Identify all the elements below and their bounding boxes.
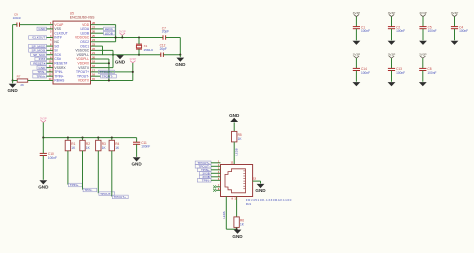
svg-text:100nF: 100nF [459, 29, 468, 33]
junction [179, 54, 181, 56]
svg-text:3V3P: 3V3P [353, 52, 361, 56]
svg-text:100nF: 100nF [427, 71, 436, 75]
net label TPOUT- [195, 164, 211, 168]
capacitor C14 [353, 67, 370, 75]
net label LEDB [104, 31, 116, 35]
junction [138, 54, 140, 56]
wire rail to C11 [136, 138, 138, 143]
ground C4 [451, 41, 459, 45]
wire rail to R1 [67, 138, 69, 141]
wire VSSTX [91, 67, 114, 69]
capacitor C10 [40, 152, 57, 160]
wire gnd stem left [12, 81, 14, 84]
capacitor C4 [451, 25, 468, 33]
wire VDDOSC row [91, 37, 164, 39]
wire C13 top [391, 58, 393, 68]
wire R1 down [67, 151, 69, 185]
no-connect pin 7 [213, 185, 216, 188]
svg-text:20pF: 20pF [160, 47, 167, 51]
wire crystal bottom [138, 49, 140, 55]
svg-text:GND: GND [232, 234, 243, 239]
svg-text:20pF: 20pF [162, 30, 169, 34]
wire rj45 nc pin7 [216, 186, 221, 188]
net label 3V3B [199, 175, 211, 179]
resistor R1 [65, 140, 76, 151]
wire osc gnd stem [179, 55, 181, 58]
wire OSC1 drop [102, 46, 104, 55]
net label LEDA [104, 27, 116, 31]
ground R5 top [229, 113, 240, 122]
junction [132, 71, 134, 73]
wire gnd join [226, 228, 237, 230]
svg-text:R7: R7 [17, 75, 21, 79]
power 3V3P C2 [388, 11, 396, 17]
wire rail to C10 [42, 138, 44, 154]
svg-text:/CLKOUT: /CLKOUT [32, 36, 46, 40]
wire C5 top [422, 17, 424, 27]
resistor R5 [232, 131, 243, 142]
svg-text:LEDA: LEDA [222, 211, 226, 218]
resistor R6 [234, 217, 245, 228]
svg-text:3V3P: 3V3P [388, 52, 396, 56]
wire R3 down [97, 151, 99, 193]
capacitor C11 [133, 141, 150, 149]
wire C8 bottom [422, 71, 424, 82]
wire GND [47, 28, 54, 30]
wire C14 bottom [355, 71, 357, 82]
resistor R4 [109, 140, 120, 151]
power 3V3P C14 [353, 52, 361, 58]
ground left [7, 84, 18, 93]
net label TPIN+ [69, 183, 83, 187]
svg-text:25MHz: 25MHz [144, 48, 154, 52]
wire gnd to R5 [233, 122, 235, 131]
wire shield [253, 180, 261, 182]
svg-text:100nF: 100nF [428, 29, 437, 33]
wire rj45 3V3B [211, 172, 221, 174]
no-connect pin 8 [213, 189, 216, 192]
capacitor C1 [353, 25, 370, 33]
wire to R6 [236, 197, 238, 217]
wire LEDB [91, 32, 104, 34]
ground C5 [419, 41, 427, 45]
wire VSS vertical [112, 50, 114, 67]
net label SP_MISO [29, 44, 47, 48]
wire VSSOSC [91, 49, 114, 51]
svg-text:RJ1: RJ1 [246, 202, 252, 206]
wire C4 top [454, 17, 456, 27]
wire VDDPLL [91, 58, 109, 60]
junction [108, 79, 110, 81]
svg-text:GND: GND [131, 162, 142, 167]
wire rail to R4 [111, 138, 113, 141]
junction [115, 36, 117, 38]
junction [108, 62, 110, 64]
svg-text:3V3P: 3V3P [419, 11, 427, 15]
junction [121, 36, 123, 38]
svg-text:VDDTX: VDDTX [78, 79, 90, 83]
wire VSSPLL row [91, 54, 161, 56]
ground bottom [232, 230, 243, 239]
junction [67, 137, 69, 139]
svg-text:LEDB: LEDB [235, 148, 239, 155]
svg-text:GND: GND [7, 88, 18, 93]
wire OSC2 [91, 41, 116, 43]
wire rj45 3V3B [211, 176, 221, 178]
wire VDD [91, 24, 116, 26]
ground C14 [353, 82, 361, 86]
net label TPIN+ [197, 168, 211, 172]
svg-text:ENC28J60-I/SS: ENC28J60-I/SS [70, 15, 95, 19]
wire SP_SCK [47, 54, 54, 56]
wire VDDRX [91, 62, 109, 64]
capacitor C9 [13, 12, 22, 26]
junction [42, 137, 44, 139]
wire C4 bottom [454, 29, 456, 41]
wire /CLKOUT [47, 37, 54, 39]
wire C13 bottom [391, 71, 393, 82]
capacitor C5 [419, 25, 436, 33]
crystal X1 25MHz [136, 44, 154, 52]
svg-text:TPIN+: TPIN+ [70, 183, 79, 187]
ground vss [115, 55, 126, 64]
wire VCAP to C9 [20, 24, 54, 26]
wire TPOUT- [91, 75, 101, 77]
wire power stem 3 [42, 122, 44, 137]
wire R5 to RJ45 [233, 142, 235, 165]
power 3V3P osc [119, 30, 126, 36]
svg-text:100nF: 100nF [361, 71, 370, 75]
wire TPOUT+ [91, 71, 133, 73]
ground C11 [131, 157, 142, 166]
ground C1 [353, 41, 361, 45]
ground C2 [388, 41, 396, 45]
svg-text:100nF: 100nF [396, 29, 405, 33]
wire rj45 TPOUT+ [211, 162, 221, 164]
wire VDDTX [91, 80, 133, 82]
junction [111, 137, 113, 139]
wire C8 top [422, 58, 424, 68]
capacitor C8 [419, 67, 436, 75]
svg-text:GND: GND [38, 27, 46, 31]
wire osc gnd rail [179, 38, 181, 55]
svg-text:2K: 2K [20, 83, 24, 87]
wire power stem 2 [132, 63, 134, 81]
svg-text:3V3P: 3V3P [419, 52, 427, 56]
power 3V3P C8 [419, 52, 427, 58]
wire C2 top [391, 17, 393, 27]
wire C1 top [355, 17, 357, 27]
wire LEDA [91, 28, 104, 30]
junction [12, 79, 14, 81]
net label RESET# [31, 61, 47, 65]
wire SP_MISO [47, 45, 54, 47]
wire shield stem [260, 181, 262, 183]
svg-text:GND: GND [255, 188, 266, 193]
net label TPOUT+ [99, 70, 115, 74]
resistor R7 [17, 75, 28, 88]
wire OSC1 [91, 45, 103, 47]
wire rj45 nc pin8 [216, 189, 221, 191]
wire C5 bottom [422, 29, 424, 41]
ground C13 [388, 82, 396, 86]
connector RJ1 RJ45 [221, 165, 292, 207]
wire C10 to gnd [42, 156, 44, 180]
power 3V3P C4 [451, 11, 459, 17]
wire C11 to gnd [136, 144, 138, 157]
net label TPIN- [197, 178, 211, 182]
net label GND [37, 66, 47, 70]
svg-text:TPIN-: TPIN- [202, 178, 210, 182]
svg-text:LEDB: LEDB [105, 31, 113, 35]
wire rail to R2 [82, 138, 84, 141]
wire VDD vertical [108, 59, 110, 81]
svg-text:100nF: 100nF [48, 156, 57, 160]
svg-text:RBIAS: RBIAS [54, 79, 65, 83]
power 3V3P C1 [353, 11, 361, 17]
svg-text:TPOUT+: TPOUT+ [114, 195, 126, 199]
wire RESET# [47, 62, 54, 64]
wire C1 bottom [355, 29, 357, 41]
svg-text:GND: GND [229, 113, 240, 118]
net label TPOUT+ [195, 161, 211, 165]
svg-text:100nF: 100nF [361, 29, 370, 33]
wire R2 down [82, 151, 84, 190]
wire TPIN+ [47, 75, 54, 77]
capacitor C2 [388, 25, 405, 33]
capacitor C7 [162, 26, 169, 39]
svg-text:100nF: 100nF [396, 71, 405, 75]
wire power stem [121, 35, 123, 37]
wire rj45 TPIN+ [211, 169, 221, 171]
resistor R3 [96, 140, 107, 151]
wire rail to R7 [13, 80, 18, 82]
wire INT# [47, 58, 54, 60]
net label INT# [35, 57, 47, 61]
svg-text:TPOUT-: TPOUT- [102, 74, 113, 78]
wire R7 to RBIAS [28, 80, 53, 82]
power 3V3P term [40, 117, 47, 123]
net label SP_MOSI [29, 49, 47, 53]
resistor R2 [80, 140, 91, 151]
ground osc [175, 58, 186, 67]
svg-text:3V3P: 3V3P [451, 11, 459, 15]
svg-text:100nF: 100nF [141, 145, 150, 149]
svg-text:TPIN+: TPIN+ [36, 74, 45, 78]
capacitor C13 [388, 67, 405, 75]
wire rj45 TPOUT- [211, 165, 221, 167]
net label 3V3B [199, 171, 211, 175]
ground shield [255, 184, 266, 193]
wire rj45 TPIN- [211, 179, 221, 181]
junction [236, 228, 238, 230]
wire C12 right [163, 54, 180, 56]
junction [97, 137, 99, 139]
wire R6 down [236, 227, 238, 229]
svg-text:3V3P: 3V3P [353, 11, 361, 15]
wire GND [47, 67, 54, 69]
capacitor C12 [160, 44, 167, 57]
wire rail to R3 [97, 138, 99, 141]
junction [112, 54, 114, 56]
wire crystal top [138, 38, 140, 45]
net label TPOUT- [99, 192, 115, 196]
power 3V3P C5 [419, 11, 427, 17]
svg-text:3V3P: 3V3P [388, 11, 396, 15]
wire R4 down [111, 151, 113, 197]
wire LEDA down [225, 197, 227, 230]
wire SP_MOSI [47, 49, 54, 51]
net label /CLKOUT [29, 36, 47, 40]
wire 3V3 rail [43, 137, 136, 139]
svg-text:GND: GND [175, 62, 186, 67]
ground C10 [38, 180, 49, 189]
wire C14 top [355, 58, 357, 68]
net label TPOUT+ [112, 195, 128, 199]
net label TPIN- [83, 188, 97, 192]
svg-text:GND: GND [115, 59, 126, 64]
net label GND [37, 27, 47, 31]
net label TPIN+ [33, 74, 47, 78]
ground C8 [419, 82, 427, 86]
wire TPIN- [47, 71, 54, 73]
wire C2 bottom [391, 29, 393, 41]
svg-text:TPIN-: TPIN- [84, 188, 92, 192]
power 3V3P C13 [388, 52, 396, 58]
wire C9 left [13, 24, 17, 26]
wire VDD drop to OSC2 [115, 25, 117, 42]
svg-text:GND: GND [38, 185, 49, 190]
wire left gnd rail [12, 25, 14, 81]
net label TPIN- [33, 70, 47, 74]
svg-text:100nF: 100nF [13, 16, 22, 20]
junction [81, 137, 83, 139]
ic U5 ENC28J60-I/SS [53, 11, 95, 84]
svg-text:TPOUT-: TPOUT- [100, 192, 111, 196]
junction [138, 36, 140, 38]
wire C7 right [166, 37, 181, 39]
net label SP_SCK [31, 53, 47, 57]
svg-text:FRJ45108-1330RAK1100: FRJ45108-1330RAK1100 [246, 198, 292, 202]
power 3V3P pll [129, 57, 136, 63]
net label TPOUT- [101, 74, 117, 78]
